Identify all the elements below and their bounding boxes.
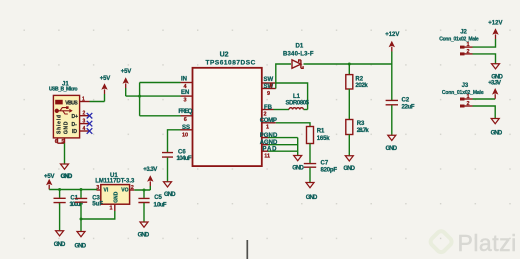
svg-text:1.0uF: 1.0uF bbox=[154, 202, 167, 208]
svg-text:3: 3 bbox=[96, 185, 99, 191]
svg-text:1: 1 bbox=[467, 42, 470, 48]
svg-text:GND: GND bbox=[491, 131, 503, 137]
svg-text:4: 4 bbox=[83, 126, 86, 132]
svg-text:+12V: +12V bbox=[385, 32, 399, 38]
svg-text:EN: EN bbox=[181, 90, 189, 96]
svg-text:+5V: +5V bbox=[100, 76, 111, 82]
svg-text:GND: GND bbox=[64, 121, 70, 134]
svg-text:GND: GND bbox=[306, 195, 318, 201]
svg-text:Conn_01x02_Male: Conn_01x02_Male bbox=[442, 90, 484, 96]
svg-text:22uF: 22uF bbox=[402, 104, 415, 110]
svg-text:GND: GND bbox=[75, 243, 87, 249]
svg-text:2: 2 bbox=[131, 185, 134, 191]
svg-text:5uF: 5uF bbox=[92, 201, 103, 207]
svg-text:28.7k: 28.7k bbox=[357, 128, 370, 134]
svg-text:2: 2 bbox=[83, 111, 86, 117]
svg-text:R1: R1 bbox=[317, 128, 325, 134]
svg-text:2: 2 bbox=[467, 101, 470, 107]
svg-text:1: 1 bbox=[266, 125, 269, 131]
svg-text:8: 8 bbox=[270, 84, 273, 90]
svg-text:IN: IN bbox=[181, 76, 187, 82]
svg-text:FREQ: FREQ bbox=[178, 109, 192, 115]
svg-text:11: 11 bbox=[264, 153, 270, 159]
svg-text:2: 2 bbox=[467, 49, 470, 55]
svg-text:B340-L3-F: B340-L3-F bbox=[283, 51, 314, 57]
svg-text:VBUS: VBUS bbox=[65, 101, 78, 107]
svg-text:6: 6 bbox=[55, 139, 58, 145]
svg-text:C5: C5 bbox=[154, 195, 162, 201]
svg-text:GND: GND bbox=[292, 165, 304, 171]
svg-text:COMP: COMP bbox=[260, 118, 277, 124]
svg-text:GND: GND bbox=[164, 192, 176, 198]
svg-text:D+: D+ bbox=[72, 114, 79, 120]
svg-text:+3.3V: +3.3V bbox=[488, 80, 501, 86]
svg-text:ID: ID bbox=[72, 129, 77, 135]
svg-text:3: 3 bbox=[184, 97, 187, 103]
svg-text:GND: GND bbox=[54, 242, 66, 248]
svg-text:+3.3V: +3.3V bbox=[143, 167, 157, 173]
svg-text:VI: VI bbox=[104, 188, 109, 194]
svg-text:GND: GND bbox=[343, 166, 355, 172]
svg-text:Shield: Shield bbox=[56, 115, 62, 134]
svg-text:9: 9 bbox=[267, 91, 270, 97]
svg-text:1: 1 bbox=[82, 96, 85, 102]
svg-text:165k: 165k bbox=[317, 136, 331, 142]
svg-text:GND: GND bbox=[113, 191, 119, 203]
svg-text:+5V: +5V bbox=[121, 69, 132, 75]
svg-text:TPS61087DSC: TPS61087DSC bbox=[206, 60, 256, 67]
svg-text:3: 3 bbox=[83, 119, 86, 125]
svg-text:10: 10 bbox=[182, 133, 188, 139]
svg-text:1: 1 bbox=[110, 206, 113, 212]
svg-text:D-: D- bbox=[72, 122, 78, 128]
svg-text:+5V: +5V bbox=[44, 174, 55, 180]
svg-text:202k: 202k bbox=[355, 83, 368, 89]
svg-text:SW: SW bbox=[264, 77, 274, 83]
svg-text:C2: C2 bbox=[402, 98, 410, 104]
svg-text:LM1117DT-3.3: LM1117DT-3.3 bbox=[95, 179, 135, 185]
svg-text:Conn_01x02_Male: Conn_01x02_Male bbox=[439, 37, 479, 43]
svg-text:R2: R2 bbox=[355, 77, 363, 83]
svg-text:820pF: 820pF bbox=[321, 167, 338, 173]
svg-text:104uF: 104uF bbox=[177, 156, 192, 162]
svg-text:GND: GND bbox=[138, 232, 150, 238]
svg-text:FB: FB bbox=[264, 105, 273, 111]
svg-text:6: 6 bbox=[184, 117, 187, 123]
svg-text:USB_B_Micro: USB_B_Micro bbox=[49, 87, 78, 93]
svg-text:R3: R3 bbox=[357, 121, 365, 127]
svg-text:U2: U2 bbox=[220, 52, 229, 59]
svg-text:2: 2 bbox=[264, 111, 267, 117]
svg-text:J2: J2 bbox=[460, 30, 467, 36]
svg-text:Platzi: Platzi bbox=[458, 230, 517, 256]
svg-text:+12V: +12V bbox=[488, 21, 502, 27]
svg-text:1: 1 bbox=[467, 94, 470, 100]
svg-text:SDR0805: SDR0805 bbox=[286, 100, 310, 106]
svg-text:GND: GND bbox=[386, 146, 398, 152]
svg-text:GND: GND bbox=[61, 174, 73, 180]
svg-text:J3: J3 bbox=[462, 83, 469, 89]
svg-text:L1: L1 bbox=[293, 94, 301, 100]
svg-text:VO: VO bbox=[121, 188, 128, 194]
svg-text:C7: C7 bbox=[321, 161, 329, 167]
svg-text:C6: C6 bbox=[178, 149, 186, 155]
svg-text:D1: D1 bbox=[296, 44, 304, 50]
svg-text:SS: SS bbox=[182, 125, 190, 131]
